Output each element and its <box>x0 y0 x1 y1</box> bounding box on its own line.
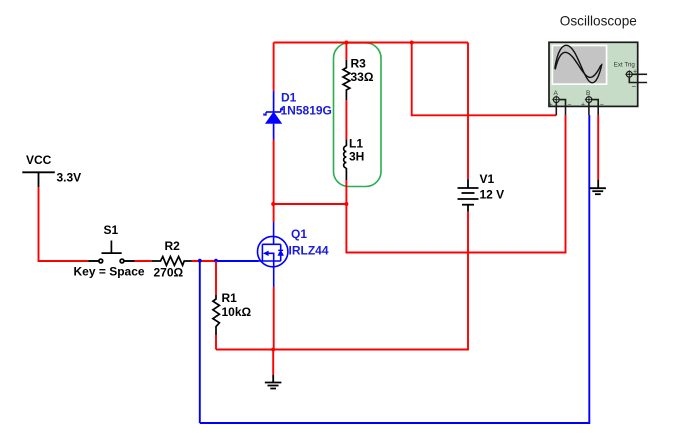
junction top rail / scope A branch <box>410 41 414 45</box>
wire junction to ground symbol <box>272 350 274 376</box>
terminal Ext Trig <box>625 70 647 82</box>
svg-text:R1: R1 <box>222 291 238 305</box>
oscilloscope sine trace (outer) <box>555 45 602 83</box>
svg-text:+: + <box>633 68 637 75</box>
svg-text:B: B <box>586 90 590 97</box>
svg-text:VCC: VCC <box>26 153 52 167</box>
svg-text:+: + <box>581 101 585 108</box>
wire R1 bottom to ground rail <box>215 335 217 350</box>
svg-text:IRLZ44: IRLZ44 <box>289 244 329 258</box>
wire switch-node rail (Q1 drain / D1 anode to L1 bottom) <box>274 203 347 205</box>
svg-text:−: − <box>632 82 637 91</box>
transistor Q1 (N-MOSFET IRLZ44) <box>258 222 288 287</box>
junction node gate / scope B <box>198 259 202 263</box>
wire R2 to gate node <box>192 260 216 262</box>
junction node rail left <box>271 202 275 206</box>
svg-text:10kΩ: 10kΩ <box>222 305 252 319</box>
wire top rail to V1 positive <box>467 43 469 180</box>
svg-text:Ext Trig: Ext Trig <box>614 61 636 68</box>
svg-text:Q1: Q1 <box>291 227 307 241</box>
green highlight box around R3-L1 branch <box>334 43 382 187</box>
oscilloscope sine trace (inner) <box>555 52 601 77</box>
junction top rail / R3 <box>344 41 348 45</box>
oscilloscope screen <box>552 45 608 85</box>
wire gate node to R1 top <box>215 261 217 295</box>
svg-text:V1: V1 <box>480 172 495 186</box>
ground (scope B minus) <box>590 180 606 195</box>
wire bottom blue rail to scope B+ <box>200 115 590 423</box>
svg-text:L1: L1 <box>349 136 363 150</box>
svg-text:270Ω: 270Ω <box>154 266 184 280</box>
wire D1 anode to node rail <box>273 140 275 205</box>
diode D1 (Schottky 1N5819G) <box>264 91 282 140</box>
svg-text:3.3V: 3.3V <box>57 170 82 184</box>
wire gate node down to bottom blue rail <box>199 261 201 423</box>
resistor R2 <box>152 257 192 266</box>
wire D1 cathode to top rail <box>273 43 275 91</box>
wire top rail to R3 top <box>345 43 347 60</box>
wire L1 bottom to node rail <box>345 180 347 204</box>
ground (main) <box>265 375 282 389</box>
wire top rail branch to scope A plus <box>412 43 557 116</box>
wire ground rail (R1 / Q1 source / V1 minus) <box>216 211 468 349</box>
svg-text:−: − <box>600 101 604 108</box>
wire scope B minus to ground <box>597 115 599 180</box>
junction Q1 source / ground rail <box>271 348 275 352</box>
wire gate node to Q1 gate <box>216 260 259 262</box>
wire top rail <box>274 42 468 44</box>
svg-text:R2: R2 <box>165 239 181 253</box>
svg-text:R3: R3 <box>351 56 367 70</box>
junction node rail right <box>344 202 348 206</box>
resistor R3 <box>343 60 350 100</box>
svg-text:S1: S1 <box>104 223 119 237</box>
terminal A <box>552 96 565 116</box>
svg-text:12 V: 12 V <box>480 188 505 202</box>
wire S1 to R2 <box>124 260 152 262</box>
terminal B <box>585 96 598 116</box>
svg-text:−: − <box>567 101 571 108</box>
inductor L1 <box>344 139 347 180</box>
wire Q1 drain to switch-node rail <box>273 204 275 222</box>
wire node rail to scope A minus (sense line) <box>346 115 565 253</box>
svg-text:3H: 3H <box>349 149 364 163</box>
wire VCC to S1 <box>39 187 99 261</box>
svg-text:D1: D1 <box>281 90 297 104</box>
svg-text:Oscilloscope: Oscilloscope <box>560 13 637 28</box>
battery V1 <box>458 179 479 211</box>
junction node gate / R1 <box>214 259 218 263</box>
svg-text:1N5819G: 1N5819G <box>281 103 332 117</box>
wire R3 to L1 <box>345 100 347 139</box>
resistor R1 <box>213 295 220 335</box>
svg-text:33Ω: 33Ω <box>351 70 374 84</box>
wire Q1 source to ground rail <box>273 287 275 350</box>
switch S1 <box>99 241 124 263</box>
svg-text:+: + <box>549 101 553 108</box>
power symbol VCC <box>22 172 55 187</box>
svg-text:Key = Space: Key = Space <box>74 265 145 279</box>
oscilloscope XSC1 body <box>549 42 638 106</box>
